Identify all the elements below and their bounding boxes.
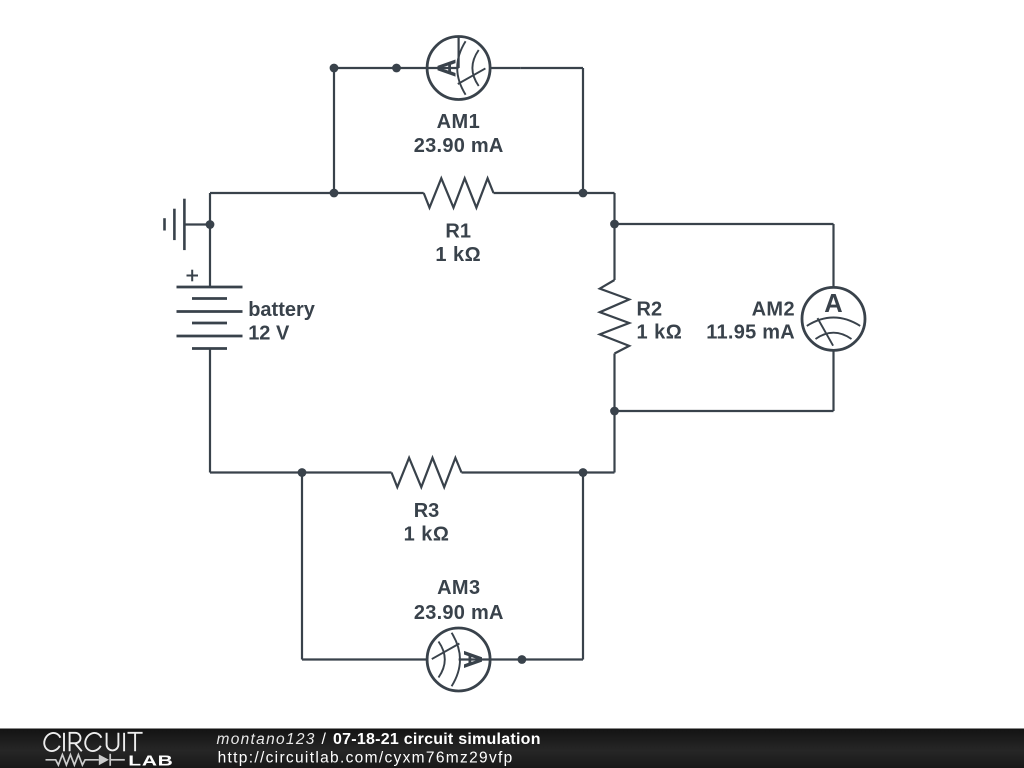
wire xyxy=(210,471,392,473)
wire xyxy=(615,223,834,225)
wire xyxy=(333,68,335,193)
svg-text:battery: battery xyxy=(248,299,316,321)
svg-text:1 kΩ: 1 kΩ xyxy=(637,321,683,343)
svg-text:R1: R1 xyxy=(445,220,471,242)
resistor R3 xyxy=(392,458,462,487)
svg-text:A: A xyxy=(824,290,842,318)
svg-text:A: A xyxy=(434,59,462,77)
svg-text:LAB: LAB xyxy=(128,751,173,768)
wire xyxy=(615,410,834,412)
wire xyxy=(301,473,303,660)
resistor R1 xyxy=(424,178,494,207)
wire xyxy=(613,224,615,280)
label AM2 xyxy=(706,299,795,344)
ground xyxy=(165,199,211,250)
wire xyxy=(522,658,583,660)
node AM1 left terminal xyxy=(392,64,401,73)
node AM2 loop top xyxy=(610,220,619,229)
node AM3 loop right xyxy=(579,468,588,477)
label battery xyxy=(248,299,316,345)
svg-text:23.90 mA: 23.90 mA xyxy=(414,135,504,157)
svg-text:A: A xyxy=(458,650,486,668)
wire xyxy=(302,658,427,660)
wire xyxy=(613,411,615,473)
label R2 xyxy=(637,299,683,344)
wire xyxy=(832,350,834,411)
label R3 xyxy=(404,500,450,546)
ammeter AM3 xyxy=(427,628,522,691)
node dots xyxy=(206,64,619,664)
node AM2 loop bottom xyxy=(610,407,619,416)
svg-text:1 kΩ: 1 kΩ xyxy=(435,244,481,266)
svg-text:23.90 mA: 23.90 mA xyxy=(414,602,504,624)
svg-text:12 V: 12 V xyxy=(248,323,290,345)
wire xyxy=(613,193,615,224)
node T-junction right xyxy=(579,189,588,198)
svg-text:1 kΩ: 1 kΩ xyxy=(404,524,450,546)
label AM1 xyxy=(414,111,504,157)
logo zigzag diode xyxy=(46,754,125,766)
wire xyxy=(209,193,211,287)
svg-text:R2: R2 xyxy=(637,299,663,321)
node AM3 loop left xyxy=(298,468,307,477)
wire xyxy=(582,473,584,660)
svg-text:07-18-21 circuit simulation: 07-18-21 circuit simulation xyxy=(333,731,541,748)
node corner AM1 loop xyxy=(330,64,339,73)
node T-junction left xyxy=(330,189,339,198)
wire xyxy=(613,354,615,412)
wire xyxy=(582,68,584,193)
wire xyxy=(832,224,834,287)
node ground junction xyxy=(206,220,215,229)
wire xyxy=(334,67,397,69)
svg-text:montano123: montano123 xyxy=(217,731,316,748)
label AM3 xyxy=(414,577,504,624)
logo CIRCUIT xyxy=(41,730,142,754)
battery V1 xyxy=(177,270,243,349)
svg-text:/: / xyxy=(322,731,327,748)
svg-text:AM3: AM3 xyxy=(437,577,480,599)
svg-text:AM2: AM2 xyxy=(752,299,795,321)
wire xyxy=(209,349,211,473)
footer bar xyxy=(0,729,1024,768)
label R1 xyxy=(435,220,481,266)
resistor R2 xyxy=(600,280,629,354)
ammeter AM2 xyxy=(802,287,865,350)
svg-text:http://circuitlab.com/cyxm76mz: http://circuitlab.com/cyxm76mz29vfp xyxy=(218,749,514,766)
svg-text:AM1: AM1 xyxy=(437,111,480,133)
ammeter AM1 xyxy=(397,37,521,100)
svg-text:R3: R3 xyxy=(414,500,440,522)
wire xyxy=(521,67,583,69)
wire xyxy=(462,471,615,473)
wire xyxy=(494,192,615,194)
node AM3 right terminal xyxy=(518,655,527,664)
wire xyxy=(210,192,424,194)
svg-text:11.95 mA: 11.95 mA xyxy=(706,321,795,343)
